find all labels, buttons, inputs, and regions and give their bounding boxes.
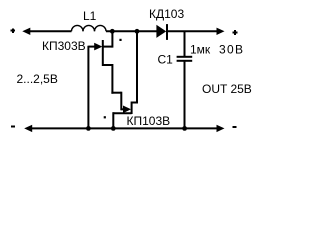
junction node A (drain VT1) <box>110 29 115 34</box>
VT1 drain stub <box>103 46 113 48</box>
label - (input negative) <box>11 125 15 127</box>
wire: VT1 gate down to ground rail <box>87 46 89 129</box>
svg-text:КД103: КД103 <box>149 7 184 21</box>
svg-text:КП103В: КП103В <box>127 114 171 128</box>
svg-text:КП303В: КП303В <box>42 39 86 53</box>
output terminal arrow (bottom right) <box>217 125 225 132</box>
input terminal arrow (top left) <box>22 28 30 35</box>
label + (input positive) <box>11 28 15 33</box>
VT2 source stub <box>113 112 131 114</box>
wire: VT1 source down <box>111 64 113 94</box>
label + (output positive) <box>233 30 238 35</box>
wire: input + to L1 <box>29 30 72 32</box>
svg-text:С1: С1 <box>158 53 174 67</box>
VT2 drain stub <box>132 102 138 104</box>
stray ink dot near VT1 drain <box>119 39 121 41</box>
svg-text:OUT 25В: OUT 25В <box>202 82 252 96</box>
svg-text:30В: 30В <box>219 43 244 57</box>
junction node B (drain VT2) <box>135 29 140 34</box>
wire: node B down to VT2 drain <box>136 31 138 103</box>
label - (output negative) <box>233 126 237 128</box>
ground rail wire <box>31 127 218 129</box>
inductor L1 <box>72 25 107 31</box>
stray ink dot near VT2 source <box>104 116 106 118</box>
transistor VT1 КП303В: channel bar <box>102 40 104 66</box>
diode VD1 КД103 <box>156 25 166 38</box>
capacitor C1 top lead <box>184 31 186 56</box>
input terminal arrow (bottom left) <box>24 125 32 132</box>
wire: jog right <box>111 92 121 94</box>
wire: L1 to diode anode <box>106 30 157 32</box>
VT2 channel bar <box>131 102 133 115</box>
junction: gate wire on ground rail <box>86 126 91 131</box>
svg-text:2...2,5В: 2...2,5В <box>17 72 58 86</box>
junction: C1 on ground rail <box>182 126 187 131</box>
wire: down to VT2 gate <box>120 92 122 111</box>
junction: VT2 source on ground rail <box>111 126 116 131</box>
capacitor C1 plates <box>177 56 193 58</box>
capacitor C1 bottom lead <box>184 61 186 128</box>
VT1 source stub <box>103 64 113 66</box>
svg-text:L1: L1 <box>83 9 97 23</box>
wire: diode cathode to + output <box>168 30 218 32</box>
transistor VT2 КП103В: gate lead with arrow <box>121 108 124 110</box>
svg-text:1мк: 1мк <box>190 43 211 57</box>
VT1 drain vertical to node A <box>111 31 113 47</box>
VT1 gate lead with arrow <box>88 46 95 48</box>
output terminal arrow (top right) <box>217 28 225 35</box>
wire: VT2 source down to ground rail <box>112 112 114 128</box>
